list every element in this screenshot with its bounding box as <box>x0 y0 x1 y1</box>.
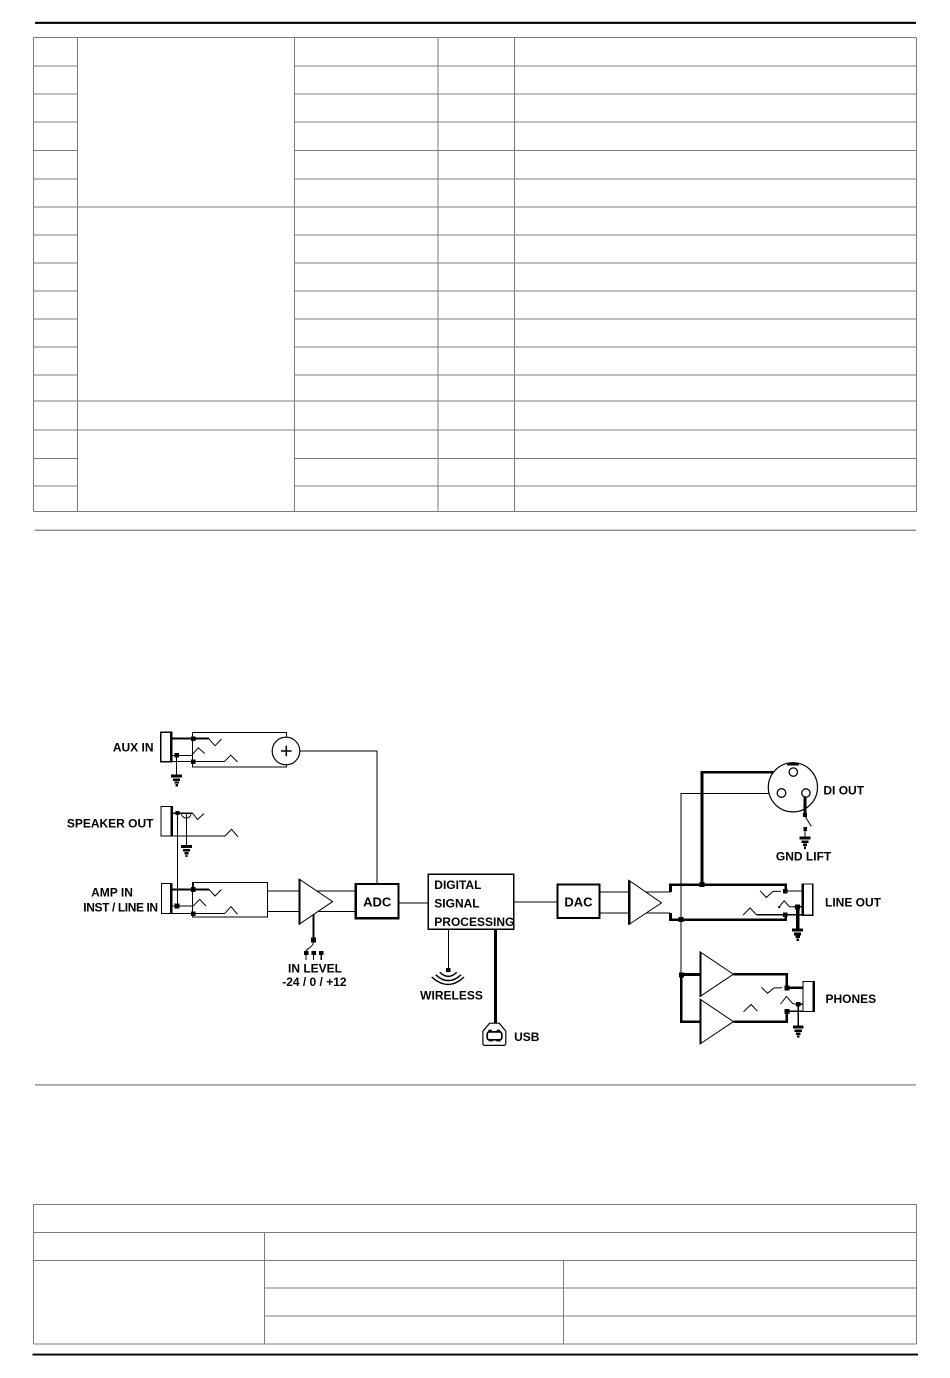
ground PHONES <box>793 1026 803 1037</box>
USB connector <box>483 1023 506 1045</box>
switch wiper gain <box>306 942 313 951</box>
jack J4 LINE OUT <box>802 884 812 915</box>
wire SPEAKER tip <box>172 812 192 814</box>
DSP U2 <box>428 874 514 929</box>
wire DI OUT cold <box>681 794 777 920</box>
wire AUX sleeve <box>172 761 224 763</box>
separator rule upper <box>35 530 916 531</box>
switch contact AMP ring <box>194 899 207 906</box>
wire SPEAKER ground drop <box>186 814 188 846</box>
svg-text:PHONES: PHONES <box>826 992 877 1006</box>
switch contact phones tip <box>762 987 783 993</box>
wire line out sleeve <box>756 914 802 916</box>
wire AUX ground drop <box>176 756 178 775</box>
node AUX tip <box>191 736 196 741</box>
table 1 grid <box>34 38 917 512</box>
switch contact line out tip <box>760 891 781 898</box>
switch contact AUX ring <box>192 748 205 756</box>
switch contact phones lower <box>744 1005 758 1012</box>
wire phones lower contact <box>787 1010 803 1012</box>
node cold at line out <box>679 917 684 922</box>
switch contact line out ring <box>778 901 794 908</box>
ground LINE OUT <box>793 929 803 940</box>
svg-text:WIRELESS: WIRELESS <box>420 989 483 1003</box>
table 2 grid <box>34 1204 917 1344</box>
svg-text:USB: USB <box>514 1030 540 1044</box>
wire DI OUT hot <box>702 772 789 884</box>
node phones lower <box>785 1009 790 1014</box>
wire phones tip <box>787 987 803 989</box>
wire phones lower out <box>733 1011 786 1021</box>
bus wires box to ADC <box>268 891 356 912</box>
wire ADC to DSP <box>399 902 429 904</box>
node gain control <box>311 937 316 942</box>
svg-text:IN LEVEL: IN LEVEL <box>288 961 342 975</box>
node SPEAKER tip <box>175 811 179 815</box>
wire line out ring <box>794 906 802 908</box>
svg-text:AUX IN: AUX IN <box>113 740 154 754</box>
selector arrow 2 <box>311 951 315 960</box>
amplifier A2 <box>629 880 662 924</box>
bottom rule <box>33 1354 919 1356</box>
switch box AMP IN <box>193 883 268 918</box>
svg-text:-24 / 0 / +12: -24 / 0 / +12 <box>282 975 347 989</box>
wire AUX ring <box>172 754 192 756</box>
jack J2 SPEAKER OUT <box>161 807 173 837</box>
svg-text:LINE OUT: LINE OUT <box>825 896 882 910</box>
svg-text:ADC: ADC <box>363 894 392 909</box>
node DI hot <box>700 882 705 887</box>
svg-text:DIGITAL: DIGITAL <box>434 878 481 892</box>
jack J1 AUX IN <box>161 732 172 761</box>
node phones feed <box>679 972 684 977</box>
bus wires DAC to line out <box>600 892 671 913</box>
node line out sleeve <box>783 913 788 918</box>
svg-text:INST / LINE IN: INST / LINE IN <box>83 901 157 915</box>
node phones tip <box>785 985 790 990</box>
wire AUX tip <box>172 738 209 740</box>
node line out tip <box>783 889 788 894</box>
ground lift switch <box>803 797 811 837</box>
wireless antenna <box>432 968 464 985</box>
switch travel arc SPEAKER <box>182 814 192 818</box>
svg-text:AMP IN: AMP IN <box>91 886 133 900</box>
top rule <box>35 22 916 24</box>
svg-text:SPEAKER OUT: SPEAKER OUT <box>67 816 154 830</box>
ADC U1 <box>356 884 399 918</box>
headphone amp A3 <box>700 952 733 997</box>
switch contact AUX tip <box>209 739 222 746</box>
switch contact AMP sleeve <box>225 907 238 915</box>
wire phones ground <box>797 1004 799 1026</box>
line out box bottom edge <box>671 913 786 920</box>
switch contact AMP tip <box>209 889 221 896</box>
node line out ring <box>795 904 800 909</box>
node AUX sleeve <box>191 760 195 764</box>
amplifier A1 <box>299 879 333 924</box>
ground GND LIFT <box>800 837 810 848</box>
node AMP sleeve <box>191 911 196 916</box>
wire line out tip <box>785 890 802 892</box>
wire phones feed lower <box>681 975 700 1022</box>
switch contact SPEAKER tip <box>193 813 205 820</box>
ground SPEAKER <box>182 846 192 857</box>
separator rule lower <box>35 1084 916 1085</box>
wire AMP tip stub <box>192 883 194 889</box>
DAC U3 <box>557 884 599 918</box>
line out box top edge <box>671 885 786 892</box>
XLR DI OUT <box>768 763 817 812</box>
wire AMP ring <box>172 905 194 907</box>
switch contact SPEAKER ring <box>225 829 238 837</box>
switch contact phones ring <box>781 997 797 1005</box>
wire line out ground <box>796 907 800 930</box>
svg-text:GND LIFT: GND LIFT <box>776 849 832 863</box>
wire phones ring <box>798 1003 803 1005</box>
wire SPEAKER to AMP IN <box>177 814 179 906</box>
selector arrow 3 <box>319 951 323 960</box>
switch contact AUX sleeve <box>224 755 237 762</box>
node AMP tip <box>191 887 196 892</box>
wire AMP tip <box>172 888 210 890</box>
node phones ring <box>796 1002 801 1007</box>
wire phones feed upper <box>681 973 700 976</box>
svg-text:DAC: DAC <box>564 894 593 909</box>
svg-text:PROCESSING: PROCESSING <box>434 915 514 929</box>
svg-text:DI OUT: DI OUT <box>823 783 864 797</box>
wire DSP to USB <box>494 929 497 1023</box>
selector arrow 1 <box>304 951 308 960</box>
wire DSP to wireless <box>447 929 449 968</box>
summing node <box>272 737 300 765</box>
ground AUX <box>172 775 182 786</box>
wire summing to ADC <box>300 751 377 884</box>
wire cold down to phones <box>680 920 682 975</box>
wire SPEAKER ring <box>172 835 225 837</box>
svg-text:SIGNAL: SIGNAL <box>434 897 479 911</box>
headphone amp A4 <box>700 999 733 1044</box>
switch box AUX <box>193 732 287 767</box>
wire AMP sleeve <box>172 913 225 915</box>
jack J5 PHONES <box>803 982 815 1012</box>
wire phones upper out <box>733 974 786 988</box>
switch contact line out sleeve <box>743 908 756 915</box>
node AUX ring <box>174 753 179 758</box>
jack J3 AMP IN <box>162 884 173 914</box>
wire gain control <box>312 915 314 940</box>
wire DSP to DAC <box>514 901 558 903</box>
node AMP ring <box>175 904 180 909</box>
